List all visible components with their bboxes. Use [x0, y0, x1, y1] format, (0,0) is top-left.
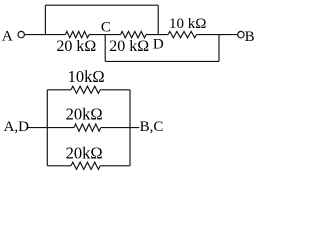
svg-text:B,C: B,C	[140, 119, 164, 135]
svg-text:10 kΩ: 10 kΩ	[169, 16, 206, 32]
svg-text:A: A	[2, 29, 13, 45]
svg-text:D: D	[153, 37, 164, 53]
svg-text:20kΩ: 20kΩ	[66, 105, 103, 124]
svg-text:20 kΩ: 20 kΩ	[56, 38, 96, 55]
svg-text:B: B	[245, 29, 255, 45]
svg-text:20kΩ: 20kΩ	[66, 143, 103, 162]
svg-text:A,D: A,D	[4, 119, 30, 135]
svg-text:20 kΩ: 20 kΩ	[109, 38, 149, 55]
svg-text:C: C	[101, 20, 111, 36]
svg-text:10kΩ: 10kΩ	[68, 67, 105, 86]
